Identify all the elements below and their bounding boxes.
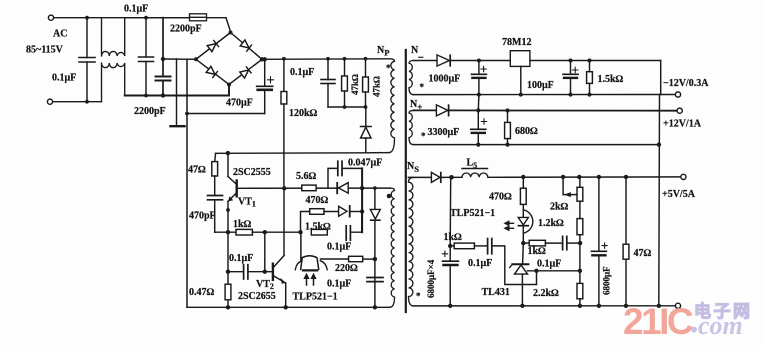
capacitor 0.1uF (on 1.5k rail): [345, 226, 347, 240]
node divider mid: [578, 241, 582, 245]
svg-text:6800μF×4: 6800μF×4: [426, 259, 436, 298]
svg-text:6800μF: 6800μF: [602, 266, 612, 295]
wire: top rail after choke: [125, 17, 189, 19]
node 1k rail x227.5: [226, 230, 230, 234]
terminal 0V: [675, 303, 680, 308]
secondary NS winding: [409, 177, 414, 305]
capacitor 0.047uF: [328, 168, 337, 188]
wire -12V top rail: [414, 60, 438, 62]
svg-text:TLP521−1: TLP521−1: [450, 208, 495, 219]
svg-text:100μF: 100μF: [527, 80, 554, 91]
node 220 rail x374.9: [373, 257, 377, 261]
svg-text:21IC: 21IC: [623, 301, 693, 342]
transformer primary Np winding: [389, 59, 395, 153]
wire: diagonal into bridge top corner: [226, 18, 231, 32]
svg-text:0.1μF: 0.1μF: [537, 259, 561, 270]
resistor 1k (5V left): [450, 245, 454, 247]
node diode/L5/cap: [449, 175, 454, 180]
svg-text:电子网: 电子网: [694, 301, 753, 321]
terminal +5V: [681, 174, 686, 179]
node: junction x146 top: [144, 16, 148, 20]
bridge rectifier outline: [196, 33, 262, 85]
svg-text:1000μF: 1000μF: [429, 74, 461, 85]
node 3300uF top: [476, 108, 480, 112]
node VT2 emitter bottom: [284, 305, 288, 309]
AC input terminal top: [48, 15, 53, 20]
diode D2 (anode left): [339, 206, 347, 216]
capacitor 0.1uF (VT2 base): [243, 265, 245, 279]
svg-text:680Ω: 680Ω: [515, 126, 538, 137]
svg-text:N_: N_: [411, 45, 424, 59]
wire TL431 ref: [528, 270, 580, 272]
wire stub to feedback winding top: [362, 187, 390, 189]
resistor 680: [505, 108, 509, 112]
transformer feedback winding: [390, 188, 395, 307]
capacitor 0.1uF (x328): [327, 59, 329, 80]
negative vertical x187: [186, 59, 188, 307]
node: junction top at x87: [85, 16, 89, 20]
wire: DC+ rail to transformer Np: [262, 58, 390, 61]
svg-text:470Ω: 470Ω: [489, 192, 512, 203]
node: junction x146 bottom rail: [144, 94, 148, 98]
svg-text:220Ω: 220Ω: [335, 263, 358, 274]
svg-text:47kΩ: 47kΩ: [350, 74, 360, 95]
wire dome right lead to 220: [321, 258, 349, 260]
transistor VT2 2SC2655: [272, 264, 274, 280]
resistor 5.6ohm: [302, 185, 316, 191]
diode +12V rectifier: [436, 105, 447, 116]
wire +12V bottom rail: [414, 144, 659, 146]
node 470uF top: [263, 57, 267, 61]
node 1k rail x264.8: [263, 230, 267, 234]
ground bar: [171, 125, 185, 127]
opto light arrows up: [305, 274, 309, 285]
node emitter junction y210: [226, 208, 230, 212]
capacitor 0.1uF second (x146): [145, 18, 147, 57]
capacitor 6800uFx4: [449, 246, 451, 261]
node bottom x579.9: [578, 304, 582, 308]
node 1k rail left: [448, 244, 452, 248]
capacitor 1000uF: [478, 61, 480, 75]
capacitor 470pF: [208, 195, 223, 197]
svg-text:85~115V: 85~115V: [26, 45, 64, 56]
wire: bottom AC rail: [53, 101, 102, 103]
resistor 2k: [577, 175, 581, 179]
diode NS rectifier: [431, 172, 440, 182]
node 78M12 gnd: [519, 93, 523, 97]
optocoupler LED (circle + diode): [524, 210, 533, 233]
wire: negative rail y113.5: [187, 113, 265, 115]
svg-text:1.5kΩ: 1.5kΩ: [598, 74, 624, 85]
node x228 y271.7: [226, 270, 230, 274]
node 1000uF bottom: [477, 93, 481, 97]
svg-text:TLP521−1: TLP521−1: [293, 292, 338, 303]
resistor 47 (bleeder): [624, 175, 628, 179]
svg-text:0.47Ω: 0.47Ω: [189, 287, 215, 298]
bridge diode D-BL: [206, 66, 217, 77]
node right end base rail: [360, 186, 364, 190]
bridge diode D-TL: [207, 41, 218, 52]
svg-text:0.1μF: 0.1μF: [124, 4, 148, 15]
node bottom x626: [624, 304, 628, 308]
plus mark 470uF: [268, 77, 274, 83]
resistor 1k (sense): [529, 240, 545, 246]
transistor VT1 2SC2555: [235, 181, 237, 197]
svg-text:47kΩ: 47kΩ: [372, 76, 382, 97]
resistor 1k (VT1 emitter rail): [215, 231, 236, 233]
svg-text:L5: L5: [467, 158, 478, 171]
svg-text:2200pF: 2200pF: [170, 24, 202, 35]
polarity dot feedback winding: [387, 194, 392, 199]
svg-text:2200pF: 2200pF: [134, 106, 166, 117]
svg-text:1.5kΩ: 1.5kΩ: [305, 222, 331, 233]
wire common ground vertical x658.8: [660, 61, 662, 95]
svg-text:1.2kΩ: 1.2kΩ: [538, 218, 564, 229]
capacitor 2200pF series box (top): [189, 17, 226, 19]
node bottom x450: [448, 304, 452, 308]
resistor 220ohm: [349, 256, 363, 261]
node VT1 collector on rail: [226, 151, 230, 155]
node bridge top: [229, 31, 233, 35]
capacitor 0.1uF (5V left): [487, 239, 489, 254]
svg-text:*: *: [420, 82, 425, 92]
resistor 120k: [283, 59, 285, 92]
node x264.8 y271.7: [263, 270, 267, 274]
node: junction x163 y59: [161, 57, 165, 61]
svg-text:1kΩ: 1kΩ: [233, 219, 252, 230]
wire -12V bottom rail to terminal: [414, 94, 676, 96]
svg-text:2.2kΩ: 2.2kΩ: [533, 288, 559, 299]
node 100uF bottom: [569, 93, 573, 97]
resistor 47k #1: [344, 59, 346, 76]
wire: AC2 rail y95.5 to bridge bottom: [125, 85, 229, 96]
node 0.1uF top: [326, 57, 330, 61]
wire 5V bottom rail: [414, 305, 676, 307]
svg-text:0.1μF: 0.1μF: [327, 242, 351, 253]
node bridge left: [194, 57, 198, 61]
capacitor 2200pF vertical (x163): [162, 18, 164, 77]
node bottom x374.9: [373, 305, 377, 309]
node 100uF top: [569, 59, 573, 63]
svg-text:2SC2655: 2SC2655: [238, 291, 276, 302]
wire: top AC rail: [54, 17, 189, 19]
svg-text:*: *: [421, 131, 426, 141]
svg-text:3300μF: 3300μF: [428, 127, 460, 138]
node 1k rail x300.5: [298, 230, 302, 234]
terminal -12V: [675, 92, 680, 97]
svg-text:47Ω: 47Ω: [188, 165, 206, 176]
svg-text:120kΩ: 120kΩ: [289, 108, 318, 119]
resistor 470 (LED feed): [521, 175, 525, 179]
node x187 y113.5: [185, 112, 189, 116]
node D2 to thick vertical: [360, 209, 364, 213]
svg-text:470pF: 470pF: [189, 211, 216, 222]
node ref x536.5: [534, 269, 538, 273]
secondary N- winding: [409, 61, 414, 95]
vertical x450 to 1k rail: [449, 177, 452, 246]
trimmer arrow into 2k: [561, 175, 565, 179]
svg-text:2kΩ: 2kΩ: [550, 202, 569, 213]
node ground vertical joins: [657, 142, 661, 146]
svg-text:1kΩ: 1kΩ: [528, 246, 547, 257]
svg-text:0.047μF: 0.047μF: [348, 158, 382, 169]
wire +12V top rail: [414, 109, 437, 111]
node 1.5k bottom: [588, 93, 592, 97]
node 3300uF bottom: [476, 143, 480, 147]
svg-text:1kΩ: 1kΩ: [444, 232, 463, 243]
wire 0.1uF line y271.7: [228, 271, 243, 273]
watermark dot: [691, 327, 697, 333]
thick vertical x362: [361, 168, 363, 232]
inductor L5: [462, 168, 488, 170]
node LED bottom: [521, 241, 525, 245]
node bridge right: [260, 57, 264, 61]
diode -12V rectifier: [437, 55, 449, 66]
link x478 between rails: [477, 95, 480, 111]
wire: collector rail y152.8 (Np bottom to VT1): [216, 152, 389, 155]
svg-text:+5V/5A: +5V/5A: [662, 189, 696, 200]
capacitor 6800uF (output): [597, 175, 601, 179]
wire +5V rail: [408, 176, 431, 178]
optocoupler phototransistor dome: [301, 232, 319, 269]
svg-text:−12V/0.3A: −12V/0.3A: [663, 78, 709, 89]
node ref right: [578, 269, 582, 273]
svg-text:NS: NS: [407, 161, 419, 174]
capacitor 0.1uF (sense): [562, 236, 564, 249]
resistor 0.47ohm: [225, 284, 231, 300]
svg-text:0.1μF: 0.1μF: [327, 279, 351, 290]
svg-text:0.1μF: 0.1μF: [229, 253, 253, 264]
resistor 2.2k: [579, 271, 581, 284]
node bottom x522.4: [520, 304, 524, 308]
wire +5V rail cont: [488, 176, 681, 178]
wire rail y107 joining divider bottoms: [328, 106, 366, 108]
node bottom x598.9: [597, 304, 601, 308]
capacitor 100uF: [570, 61, 572, 75]
terminal +12V: [677, 108, 682, 113]
svg-text:470Ω: 470Ω: [306, 195, 329, 206]
svg-text:470μF: 470μF: [226, 98, 253, 109]
svg-text:5.6Ω: 5.6Ω: [296, 171, 317, 182]
capacitor 470uF electrolytic: [264, 59, 266, 86]
node x374.9 y188.1: [373, 186, 377, 190]
svg-text:*: *: [416, 291, 421, 301]
zener diode (x366): [365, 107, 367, 127]
svg-text:47Ω: 47Ω: [634, 248, 652, 259]
ground line for Y-caps: [176, 59, 178, 126]
wire rail y243.1: [523, 242, 529, 244]
capacitor 0.1uF input (x87): [86, 18, 88, 58]
diode Dz on x374.9: [374, 188, 376, 209]
node 680 bottom: [505, 143, 509, 147]
shunt regulator TL431: [522, 243, 525, 264]
vertical x264.8: [264, 232, 266, 272]
bridge diode D-TR: [240, 40, 251, 51]
resistor 47ohm (primary): [214, 153, 217, 161]
wire: VT1 base rail y188.3: [237, 187, 362, 189]
capacitor 0.1uF (x374.9): [367, 277, 383, 279]
svg-text:0.1μF: 0.1μF: [468, 258, 492, 269]
svg-text:VT1: VT1: [238, 197, 256, 209]
node 0.47 bottom: [226, 305, 230, 309]
node base rail /120k/VT2-collector: [282, 186, 286, 190]
wire 470 rail y211.5: [301, 212, 310, 233]
regulator 78M12: [510, 51, 530, 67]
common-mode choke L bottom winding: [102, 63, 125, 102]
svg-text:0.1μF: 0.1μF: [290, 67, 314, 78]
resistor 47k #2: [365, 59, 367, 77]
node bottom ground vertical: [657, 304, 661, 308]
resistor 470ohm (base clamp): [310, 209, 324, 215]
capacitor 3300uF: [477, 110, 479, 129]
common-mode choke L top winding: [102, 18, 125, 56]
resistor 1.5k (-12V): [588, 59, 592, 63]
resistor 1.2k: [579, 201, 581, 218]
svg-text:NP: NP: [377, 45, 389, 58]
node: junction bottom at x87: [85, 100, 89, 104]
secondary N+ winding: [409, 110, 414, 144]
svg-text:*: *: [386, 63, 391, 73]
transformer core: [405, 50, 407, 312]
diode D1 (cathode left): [336, 183, 338, 193]
svg-text:2SC2555: 2SC2555: [233, 167, 271, 178]
svg-text:+12V/1A: +12V/1A: [663, 119, 702, 130]
node 1000uF top: [477, 59, 481, 63]
node: junction x163 bottom: [161, 93, 165, 97]
node 120k top: [282, 57, 286, 61]
bridge diode D-BR: [240, 67, 251, 78]
svg-text:VT2: VT2: [256, 279, 274, 291]
resistor 1.5k: [311, 229, 327, 235]
LED light arrows left: [505, 221, 514, 225]
svg-text:0.1μF: 0.1μF: [52, 73, 76, 84]
svg-text:AC: AC: [53, 29, 67, 40]
AC input terminal bottom: [47, 99, 52, 104]
svg-text:78M12: 78M12: [502, 37, 531, 48]
svg-text:TL431: TL431: [482, 287, 510, 298]
wire: AC line to bridge left corner: [163, 58, 196, 60]
node bridge bottom: [227, 83, 231, 87]
wire bottom rail primary: [187, 306, 390, 308]
